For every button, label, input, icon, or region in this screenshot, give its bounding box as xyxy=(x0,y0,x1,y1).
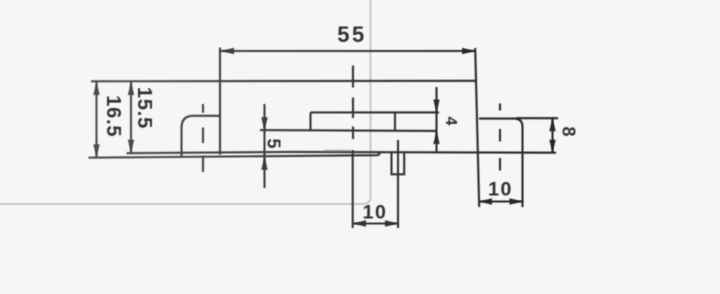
arrowhead 5 top (down) xyxy=(261,117,267,130)
slot left step vertical xyxy=(309,112,311,130)
boss outline rounded corner xyxy=(182,116,221,157)
body bottom upper line xyxy=(127,152,557,153)
slot top line xyxy=(311,111,440,113)
10 left dim: slot centerline dash-dot extension xyxy=(352,66,354,140)
svg-text:15.5: 15.5 xyxy=(133,87,155,129)
10 left dim extension solid xyxy=(352,150,354,228)
arrowhead 4 top (down) xyxy=(433,100,439,113)
arrowhead 8 bottom (down) xyxy=(549,140,555,153)
arrowhead 5 bottom (up) xyxy=(261,157,267,170)
body bottom lower line with hook xyxy=(89,152,381,157)
55 dimension line xyxy=(221,50,475,52)
slot divider vertical xyxy=(394,112,396,130)
4 dimension line xyxy=(435,87,437,154)
8 dimension line xyxy=(551,118,553,153)
arrowhead 15.5 bottom xyxy=(128,140,134,153)
tab below body xyxy=(392,152,405,174)
svg-text:16.5: 16.5 xyxy=(102,95,124,137)
faint double stroke on bottom line xyxy=(324,149,351,151)
slot bottom line xyxy=(260,129,437,132)
arrowhead 10 left dim left xyxy=(353,220,366,226)
15.5 dimension line xyxy=(130,82,132,153)
55 left extension / boss right edge xyxy=(219,48,221,155)
right piece outline xyxy=(479,119,523,207)
arrowhead 4 bottom (up) xyxy=(433,131,439,144)
arrowhead 55 left xyxy=(221,48,234,54)
svg-text:10: 10 xyxy=(488,179,513,201)
5 dimension line xyxy=(263,104,265,188)
right piece centerline xyxy=(499,104,501,171)
svg-text:10: 10 xyxy=(363,202,388,224)
light construction line (table edge) xyxy=(0,0,371,204)
arrowhead 8 top (up) xyxy=(549,118,555,131)
16.5 dimension line xyxy=(95,82,97,158)
arrowhead 55 right xyxy=(462,48,475,54)
10 right dimension line xyxy=(479,200,523,202)
arrowhead 10 left dim right xyxy=(385,220,398,226)
arrowhead 10 right dim left xyxy=(479,198,492,204)
svg-text:8: 8 xyxy=(559,126,579,136)
body right edge / 55 right extension / 10 extension xyxy=(475,48,479,207)
boss centerline xyxy=(202,104,204,172)
svg-text:4: 4 xyxy=(442,117,459,126)
8 dim top extension xyxy=(516,117,558,119)
arrowhead 16.5 top xyxy=(93,82,99,95)
svg-text:5: 5 xyxy=(264,138,284,148)
tab centerline / 10 right extension xyxy=(397,140,399,228)
body top line xyxy=(91,80,476,83)
arrowhead 16.5 bottom xyxy=(93,144,99,157)
arrowhead 10 right dim right xyxy=(510,198,523,204)
arrowhead 15.5 top xyxy=(128,82,134,95)
10 left dimension line xyxy=(353,222,398,224)
svg-text:55: 55 xyxy=(337,22,366,47)
